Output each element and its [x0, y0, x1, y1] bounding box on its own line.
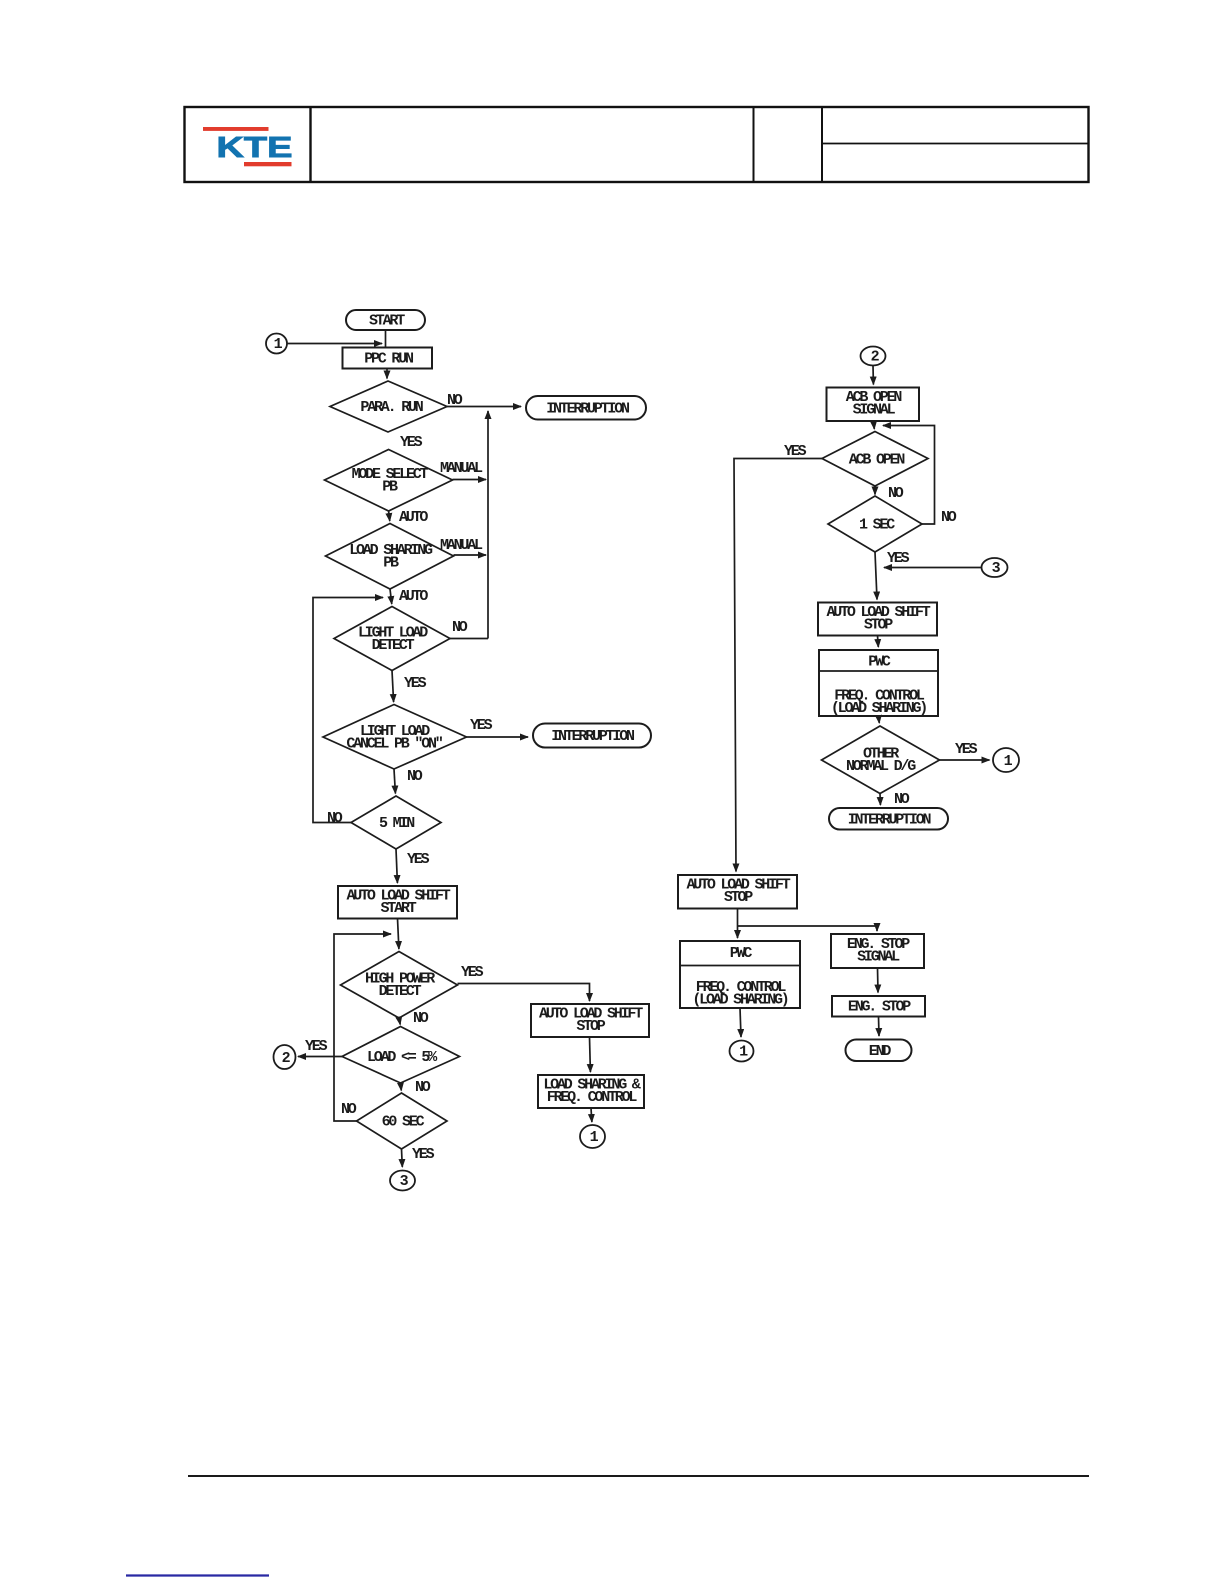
decision ACB OPEN: [822, 432, 928, 487]
svg-text:NO: NO: [447, 392, 463, 409]
label ENG STOP SIGNAL: [847, 936, 910, 966]
decision LIGHT LOAD DETECT: [334, 607, 450, 671]
wire circle2 to ACB OPEN SIGNAL: [872, 366, 874, 385]
label AUTO LOAD SHIFT STOP right: [826, 604, 930, 634]
svg-text:SIGNAL: SIGNAL: [853, 402, 896, 419]
svg-text:1: 1: [739, 1044, 748, 1061]
svg-text:1: 1: [274, 336, 283, 353]
wire NO to INTERRUPTION: [447, 406, 521, 408]
wire LLC yes to INTERRUPTION: [467, 736, 529, 738]
svg-text:2: 2: [282, 1050, 291, 1067]
wire OTHER yes to circle1: [940, 759, 990, 761]
label FREQ CONTROL bottom: [692, 979, 787, 1009]
svg-text:YES: YES: [784, 443, 807, 460]
decision LOAD SHARING PB: [326, 524, 454, 590]
svg-text:YES: YES: [887, 550, 910, 567]
svg-text:YES: YES: [400, 434, 423, 451]
label AUTO mode: [399, 509, 428, 526]
process AUTO LOAD SHIFT STOP bottom: [678, 875, 797, 909]
svg-text:NO: NO: [415, 1079, 431, 1096]
label YES 1sec: [887, 550, 910, 567]
connector circle 3 bottom: [390, 1171, 415, 1191]
svg-text:YES: YES: [305, 1038, 328, 1055]
wire 5min loop return: [313, 598, 383, 823]
label NO 60sec: [341, 1101, 357, 1118]
label circle1 number: [274, 336, 283, 353]
svg-text:PPC RUN: PPC RUN: [364, 351, 414, 368]
label NO llc: [407, 768, 423, 785]
terminator END: [846, 1040, 912, 1062]
label MANUAL ls: [440, 537, 483, 554]
terminator INTERRUPTION 1: [526, 396, 646, 420]
label PWC bottom: [730, 945, 753, 962]
wire ESS to ES: [877, 968, 880, 993]
KTE logo: [203, 127, 292, 166]
wire HPD no down: [399, 1018, 400, 1025]
label PWC right: [868, 654, 891, 671]
svg-text:1 SEC: 1 SEC: [859, 517, 895, 534]
connector circle 2 left: [274, 1045, 296, 1069]
wire circle1 to PPC RUN: [287, 343, 382, 345]
label YES para: [400, 434, 423, 451]
decision OTHER NORMAL DG: [822, 726, 940, 794]
svg-text:ENG. STOP: ENG. STOP: [848, 999, 911, 1016]
wire AOS to ACB OPEN: [873, 421, 876, 429]
svg-text:ACB OPEN: ACB OPEN: [849, 452, 906, 469]
label INTERRUPTION 3: [848, 812, 932, 829]
svg-text:YES: YES: [412, 1146, 435, 1163]
label YES other: [955, 741, 978, 758]
connector circle 3 right: [982, 558, 1008, 577]
svg-text:1: 1: [590, 1129, 599, 1146]
svg-text:1: 1: [1004, 753, 1013, 770]
label OTHER NORMAL DG: [846, 746, 916, 776]
wire ACB OPEN no down: [874, 486, 876, 495]
label YES hpd: [461, 964, 484, 981]
terminator INTERRUPTION 2: [533, 724, 651, 748]
wire ES to END: [878, 1017, 881, 1037]
wire PWC2 to circle1: [740, 1008, 741, 1037]
wire LOAD SHARING to LIGHT LOAD DETECT: [390, 589, 392, 604]
svg-text:STOP: STOP: [864, 617, 893, 634]
process AUTO LOAD SHIFT STOP left: [531, 1004, 649, 1037]
label LOAD SHARING FREQ CONTROL: [543, 1077, 640, 1107]
process PWC FREQ CONTROL right: [819, 650, 938, 716]
process LOAD SHARING FREQ CONTROL: [538, 1075, 644, 1108]
label FREQ CONTROL right: [831, 688, 926, 718]
wire ACB OPEN yes long: [734, 459, 822, 872]
wire HPD yes to ALS STOP: [458, 984, 590, 1002]
wire LOAD no down: [400, 1083, 403, 1091]
svg-text:NO: NO: [407, 768, 423, 785]
label HIGH POWER DETECT: [365, 971, 435, 1001]
wire PWC to OTHER: [878, 716, 881, 723]
process ACB OPEN SIGNAL: [827, 388, 920, 422]
wire 1sec no loop: [883, 426, 935, 525]
label circle3 bottom number: [400, 1173, 409, 1190]
terminator START: [346, 310, 425, 330]
svg-text:3: 3: [400, 1173, 409, 1190]
process ENG STOP SIGNAL: [831, 934, 924, 968]
label ACB OPEN SIGNAL: [846, 389, 903, 419]
label AUTO LOAD SHIFT STOP bottom: [686, 877, 790, 907]
wire LOAD yes to circle2: [298, 1056, 342, 1058]
terminator INTERRUPTION 3: [829, 808, 948, 830]
svg-text:NO: NO: [341, 1101, 357, 1118]
wire ALSS to PWC: [877, 636, 880, 648]
label circle1 bottom right number: [739, 1044, 748, 1061]
svg-text:YES: YES: [407, 851, 430, 868]
svg-text:DETECT: DETECT: [372, 637, 415, 654]
svg-text:PWC: PWC: [730, 945, 753, 962]
wire PPC RUN to PARA RUN: [386, 369, 388, 379]
svg-text:MANUAL: MANUAL: [440, 537, 483, 554]
svg-text:YES: YES: [955, 741, 978, 758]
svg-text:PB: PB: [383, 555, 399, 572]
wire 60sec yes to circle3: [401, 1149, 404, 1167]
label circle1 right number: [1004, 753, 1013, 770]
wire 5min yes down: [396, 849, 397, 883]
label 1 SEC: [859, 517, 895, 534]
label circle1 bottom left number: [590, 1129, 599, 1146]
svg-text:NO: NO: [452, 619, 468, 636]
label INTERRUPTION 2: [551, 728, 635, 745]
label YES load: [305, 1038, 328, 1055]
decision 5 MIN: [351, 796, 441, 849]
decision HIGH POWER DETECT: [341, 952, 458, 1019]
svg-text:2: 2: [871, 349, 880, 366]
connector circle 2 top right: [861, 347, 886, 366]
label YES lld: [404, 675, 427, 692]
svg-text:INTERRUPTION: INTERRUPTION: [848, 812, 932, 829]
wire MODE to LOAD SHARING: [389, 511, 390, 521]
label LOAD le 5: [367, 1049, 438, 1066]
process PPC RUN: [343, 348, 433, 369]
svg-text:NO: NO: [894, 791, 910, 808]
label circle3 right number: [992, 560, 1001, 577]
decision 1 SEC: [828, 496, 922, 552]
label LOAD SHARING PB: [349, 542, 433, 572]
svg-text:STOP: STOP: [724, 889, 753, 906]
label circle2 top right number: [871, 349, 880, 366]
wire ALSS2 to PWC2: [737, 909, 739, 939]
label NO 5min: [327, 810, 343, 827]
footer rule: [188, 1475, 1089, 1477]
svg-text:YES: YES: [470, 717, 493, 734]
svg-text:NO: NO: [413, 1010, 429, 1027]
wire LLC no down: [394, 769, 395, 794]
wire LSFC to circle1: [590, 1108, 593, 1122]
connector circle 1 right: [993, 748, 1019, 772]
svg-text:AUTO: AUTO: [399, 588, 428, 605]
svg-text:(LOAD SHARING): (LOAD SHARING): [831, 700, 926, 717]
decision MODE SELECT PB: [325, 450, 453, 512]
label AUTO LOAD SHIFT START: [346, 888, 450, 918]
label AUTO ls: [399, 588, 428, 605]
label NO para: [447, 392, 463, 409]
label NO hpd: [413, 1010, 429, 1027]
label NO acb: [888, 485, 904, 502]
process PWC FREQ CONTROL bottom: [680, 941, 800, 1008]
svg-text:MANUAL: MANUAL: [440, 460, 483, 477]
wire circle3 join: [884, 567, 981, 569]
wire ALS START down: [398, 919, 399, 950]
FLOWCHART: [266, 310, 1019, 1191]
svg-text:PARA. RUN: PARA. RUN: [360, 399, 423, 416]
label AUTO LOAD SHIFT STOP left: [539, 1006, 643, 1036]
label YES 60sec: [412, 1146, 435, 1163]
svg-text:60 SEC: 60 SEC: [382, 1114, 425, 1131]
label ENG STOP: [848, 999, 911, 1016]
svg-text:LOAD <= 5%: LOAD <= 5%: [367, 1049, 438, 1066]
label MODE SELECT PB: [352, 466, 429, 496]
process AUTO LOAD SHIFT STOP right: [818, 603, 937, 636]
label NO other: [894, 791, 910, 808]
svg-text:PB: PB: [382, 479, 398, 496]
decision LOAD le 5: [342, 1027, 460, 1084]
wire LLD no: [450, 638, 488, 640]
wire branch to ENG STOP SIGNAL: [738, 926, 878, 931]
svg-text:STOP: STOP: [576, 1018, 605, 1035]
svg-text:(LOAD SHARING): (LOAD SHARING): [692, 992, 787, 1009]
svg-text:NO: NO: [888, 485, 904, 502]
svg-text:START: START: [380, 900, 416, 917]
wire manual return vertical: [487, 411, 489, 639]
label PPC RUN: [364, 351, 414, 368]
connector circle 1 entry: [266, 334, 287, 354]
svg-text:CANCEL PB "ON": CANCEL PB "ON": [346, 736, 442, 753]
decision PARA. RUN: [330, 381, 447, 432]
label YES llc: [470, 717, 493, 734]
process AUTO LOAD SHIFT START: [338, 886, 457, 919]
svg-text:KTE: KTE: [217, 131, 293, 164]
svg-text:NO: NO: [327, 810, 343, 827]
wire ALS STOP to LSFC: [589, 1037, 592, 1072]
wire START down: [385, 330, 387, 348]
svg-text:YES: YES: [404, 675, 427, 692]
label LIGHT LOAD CANCEL: [346, 723, 442, 753]
wire 60sec loop return: [334, 934, 391, 1121]
wire LLD yes down: [392, 671, 394, 703]
label START: [369, 313, 405, 330]
label END: [869, 1043, 892, 1060]
label 5 MIN: [379, 815, 415, 832]
svg-text:START: START: [369, 313, 405, 330]
connector circle 1 bottom left: [580, 1125, 605, 1148]
svg-text:NO: NO: [941, 509, 957, 526]
label NO 1sec: [941, 509, 957, 526]
svg-text:FREQ. CONTROL: FREQ. CONTROL: [547, 1089, 638, 1106]
svg-text:YES: YES: [461, 964, 484, 981]
svg-text:AUTO: AUTO: [399, 509, 428, 526]
wire OTHER no down: [879, 794, 881, 806]
label YES acb: [784, 443, 807, 460]
wire LOAD SHARING manual: [454, 554, 487, 556]
label NO load: [415, 1079, 431, 1096]
svg-text:INTERRUPTION: INTERRUPTION: [546, 401, 630, 418]
label NO lld: [452, 619, 468, 636]
wire MODE SELECT manual: [453, 479, 487, 481]
header table frame: [185, 107, 1089, 182]
svg-text:DETECT: DETECT: [379, 983, 422, 1000]
label YES 5min: [407, 851, 430, 868]
svg-text:PWC: PWC: [868, 654, 891, 671]
label PARA RUN: [360, 399, 423, 416]
process ENG STOP: [832, 996, 925, 1017]
label LIGHT LOAD DETECT: [358, 625, 428, 655]
svg-text:SIGNAL: SIGNAL: [857, 949, 900, 966]
label MANUAL mode: [440, 460, 483, 477]
svg-text:NORMAL D/G: NORMAL D/G: [846, 758, 916, 775]
svg-text:END: END: [869, 1043, 892, 1060]
decision 60 SEC: [357, 1093, 448, 1149]
svg-text:3: 3: [992, 560, 1001, 577]
connector circle 1 bottom right: [730, 1041, 754, 1062]
label INTERRUPTION 1: [546, 401, 630, 418]
label 60 SEC: [382, 1114, 425, 1131]
svg-text:5 MIN: 5 MIN: [379, 815, 415, 832]
label circle2 left number: [282, 1050, 291, 1067]
footer blue rule: [126, 1574, 269, 1576]
svg-text:INTERRUPTION: INTERRUPTION: [551, 728, 635, 745]
decision LIGHT LOAD CANCEL PB ON: [323, 705, 467, 770]
label ACB OPEN: [849, 452, 906, 469]
wire 1sec yes down: [875, 552, 877, 600]
